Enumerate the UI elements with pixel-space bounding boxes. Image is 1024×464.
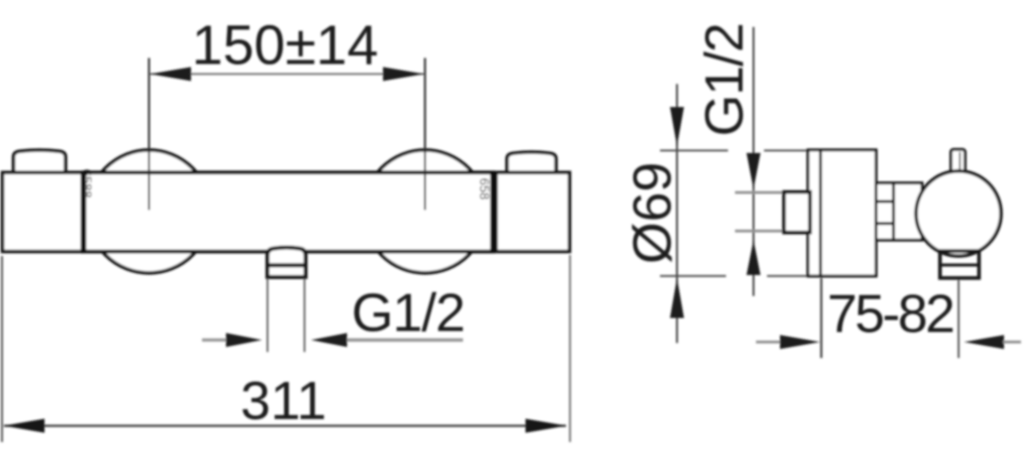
dimension 311: left arrow (4, 419, 45, 433)
svg-text:658: 658 (477, 178, 492, 200)
bottom outlet (front view) (268, 248, 306, 277)
thick divider right (490, 171, 496, 253)
svg-text:150±14: 150±14 (192, 13, 378, 76)
svg-text:75-82: 75-82 (827, 284, 953, 344)
75-82 right arrow (964, 335, 1004, 349)
Ø69 dimension line (676, 84, 678, 343)
dimension 311: line (4, 425, 566, 427)
handle circle (side view) (916, 171, 1001, 256)
dimension G1/2 (front): right arrow (311, 333, 347, 347)
75-82 left extension line (820, 278, 822, 358)
G1/2 side ext line top (735, 191, 783, 194)
svg-text:6588: 6588 (80, 169, 95, 198)
G1/2 side bottom arrow (747, 240, 761, 275)
outlet extension line right (304, 278, 306, 352)
hose outlet divider (940, 264, 979, 267)
knob inner line (959, 152, 961, 173)
neck vertical divider (892, 183, 895, 240)
left handle circle (front view) (88, 150, 211, 273)
Ø69 top arrow (670, 107, 684, 146)
dimension 311: left extension line (1, 256, 3, 442)
centerline left (148, 58, 150, 210)
75-82 left arrow (780, 335, 820, 349)
G1/2 side top arrow (747, 153, 761, 189)
svg-text:G1/2: G1/2 (351, 283, 464, 343)
left end block (3, 173, 83, 252)
outlet extension line left (267, 278, 269, 352)
G1/2 side dimension line (753, 27, 755, 296)
neck rib line 1 (876, 200, 894, 203)
left cap (wall union top) (14, 150, 66, 174)
Ø69 bottom extension line (660, 275, 807, 277)
svg-text:311: 311 (240, 371, 326, 431)
right cap (wall union top) (507, 152, 556, 175)
75-82 right shaft (1003, 341, 1021, 344)
dimension 311: right extension line (569, 255, 571, 442)
dimension G1/2 (front): left arrow (226, 333, 262, 347)
svg-text:G1/2: G1/2 (694, 23, 754, 136)
75-82 left shaft (756, 341, 790, 344)
Ø69 bottom arrow (670, 278, 684, 318)
dimension 311: right arrow (526, 419, 567, 433)
neck ribbed section (876, 183, 922, 240)
75-82 right extension line (958, 280, 960, 358)
thick divider left (81, 171, 87, 253)
dimension 150±14: right arrow (383, 67, 424, 81)
body (side view) (821, 150, 877, 276)
outlet collar line (266, 263, 307, 267)
dimension G1/2 (front): left shaft (202, 338, 232, 341)
dimension 150±14: left arrow (150, 67, 191, 81)
neck rib line 2 (876, 222, 894, 225)
dimension G1/2 (front): right leader (347, 338, 463, 342)
Ø69 top extension line (660, 150, 807, 152)
centerline right (424, 58, 426, 210)
right end block (496, 173, 570, 252)
right handle circle (front view) (364, 150, 487, 273)
wall plate (side view) (808, 150, 821, 276)
dimension 150±14: line (150, 73, 424, 75)
main body (front view) (83, 173, 493, 252)
svg-text:Ø69: Ø69 (622, 162, 682, 264)
hose outlet (side view) (940, 251, 979, 278)
G1/2 side ext line bottom (735, 230, 783, 233)
G1/2 square union (side view) (784, 192, 810, 233)
knob on top of handle (side view) (951, 150, 965, 176)
